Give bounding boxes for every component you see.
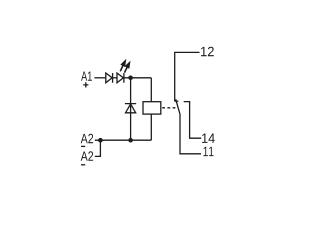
diode D1 — [106, 73, 113, 83]
terminal label A1 — [81, 71, 92, 80]
actuator dashed link — [162, 107, 175, 109]
flyback diode — [125, 104, 136, 113]
relay coil K1 — [143, 102, 161, 114]
LED D2 — [117, 73, 124, 83]
wire flyback branch — [130, 79, 132, 140]
terminal label A2 first — [81, 134, 93, 143]
wire A1 to D1 — [94, 77, 105, 79]
wire A2 second to junction — [95, 140, 101, 156]
minus polarity mark first — [81, 145, 85, 147]
node junction at LED cathode — [128, 76, 133, 81]
terminal label 11 — [204, 147, 214, 156]
NC fixed contact foot — [175, 100, 179, 102]
terminal label 14 — [202, 134, 215, 143]
terminal label A2 second — [81, 151, 93, 160]
switch arm and wire terminal 11 — [176, 99, 201, 154]
plus polarity mark — [83, 82, 88, 87]
wire coil bottom — [150, 114, 152, 140]
node A2 junction — [98, 138, 103, 143]
wire LED to coil branch — [124, 77, 151, 79]
node flyback diode junction — [128, 138, 133, 143]
bottom wire A2 — [95, 139, 152, 141]
NO fixed contact and wire terminal 14 — [184, 102, 202, 139]
terminal label 12 — [201, 47, 214, 56]
wire D1 to LED — [113, 77, 117, 79]
LED emission arrows — [120, 61, 129, 73]
wire terminal 12 — [175, 52, 200, 101]
wire down to coil — [150, 78, 152, 102]
minus polarity mark second — [81, 164, 85, 166]
